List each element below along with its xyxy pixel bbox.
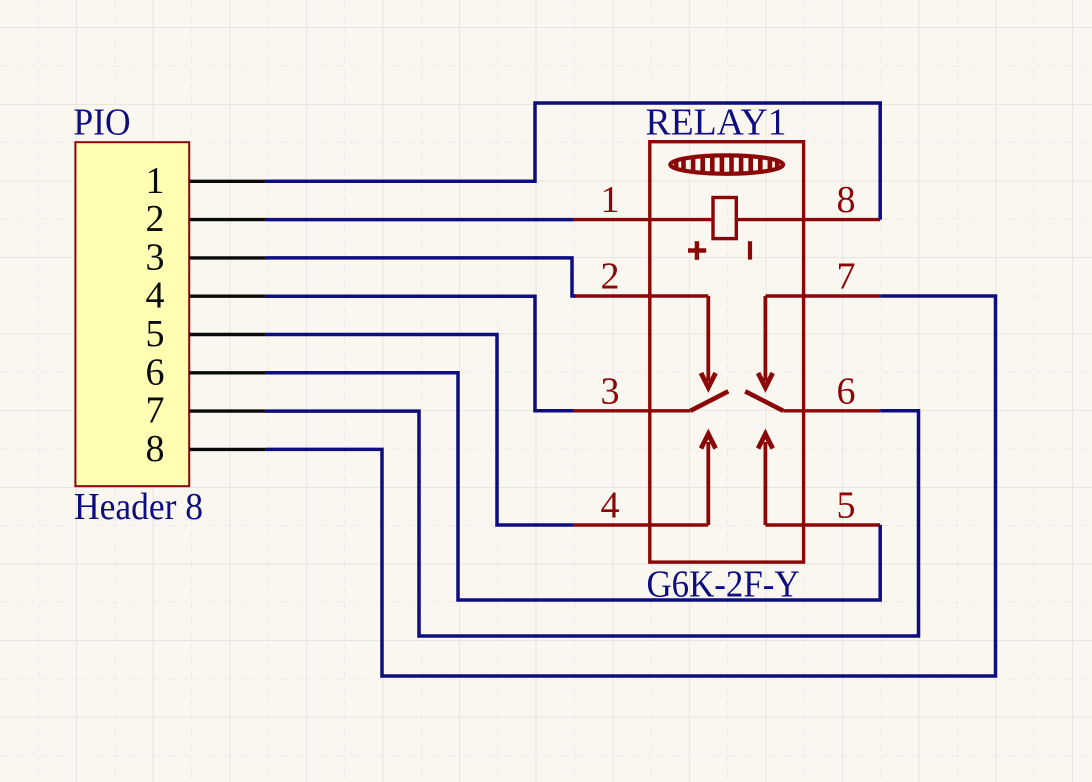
svg-text:6: 6	[837, 370, 856, 412]
wire PIO.2 to RELAY1.1	[266, 218, 574, 222]
connector PIO (Header 8) body	[75, 142, 189, 486]
header PIO pin 4	[146, 275, 266, 317]
polarity plus mark	[688, 241, 706, 260]
wire PIO.8 to RELAY1.7	[266, 296, 996, 676]
svg-text:4: 4	[146, 275, 165, 317]
right normally-open contact (up arrow)	[758, 434, 804, 525]
polarity minus mark	[748, 241, 752, 259]
left contact blade	[650, 391, 729, 411]
svg-text:7: 7	[146, 390, 165, 432]
svg-text:2: 2	[601, 256, 620, 298]
left contact drive (down arrow)	[650, 296, 716, 388]
relay coil core rectangle	[713, 198, 736, 239]
svg-text:3: 3	[146, 236, 165, 278]
relay pin 5	[804, 485, 881, 527]
wire PIO.7 to RELAY1.6	[266, 411, 919, 636]
header PIO pin 2	[146, 198, 266, 240]
header PIO pin 6	[146, 351, 266, 393]
svg-text:PIO: PIO	[74, 102, 131, 144]
wire PIO.4 to RELAY1.3	[266, 296, 574, 411]
svg-text:8: 8	[146, 428, 165, 470]
relay pin 8	[804, 179, 881, 221]
wire PIO.3 to RELAY1.2	[266, 258, 576, 296]
relay pin 2	[574, 256, 650, 298]
header PIO pin 5	[146, 313, 266, 355]
header PIO pin 8	[146, 428, 266, 470]
svg-text:8: 8	[837, 179, 856, 221]
relay RELAY1 body	[650, 142, 804, 562]
relay coil	[670, 152, 783, 178]
relay pin 6	[804, 370, 881, 412]
svg-text:RELAY1: RELAY1	[646, 102, 787, 144]
svg-text:1: 1	[146, 160, 165, 202]
header PIO pin 1	[146, 160, 266, 202]
right contact drive (down arrow)	[758, 296, 804, 388]
relay pin 3	[574, 370, 650, 412]
wire PIO.1 to RELAY1.8	[266, 103, 881, 220]
relay pin 4	[574, 485, 650, 527]
svg-text:2: 2	[146, 198, 165, 240]
left normally-open contact (up arrow)	[650, 434, 716, 525]
svg-text:7: 7	[837, 256, 856, 298]
svg-text:5: 5	[146, 313, 165, 355]
svg-text:1: 1	[601, 179, 620, 221]
svg-text:5: 5	[837, 485, 856, 527]
svg-text:Header 8: Header 8	[74, 486, 203, 528]
wire PIO.6 to RELAY1.5	[266, 373, 881, 600]
header PIO pin 7	[146, 390, 266, 432]
relay pin 7	[804, 256, 881, 298]
wire PIO.5 to RELAY1.4	[266, 335, 574, 526]
relay pin 1	[574, 179, 650, 221]
svg-text:6: 6	[146, 351, 165, 393]
right contact blade	[745, 391, 803, 411]
header PIO pin 3	[146, 236, 266, 278]
relay coil row wire segments	[650, 218, 804, 221]
svg-text:3: 3	[601, 370, 620, 412]
svg-text:4: 4	[601, 485, 620, 527]
